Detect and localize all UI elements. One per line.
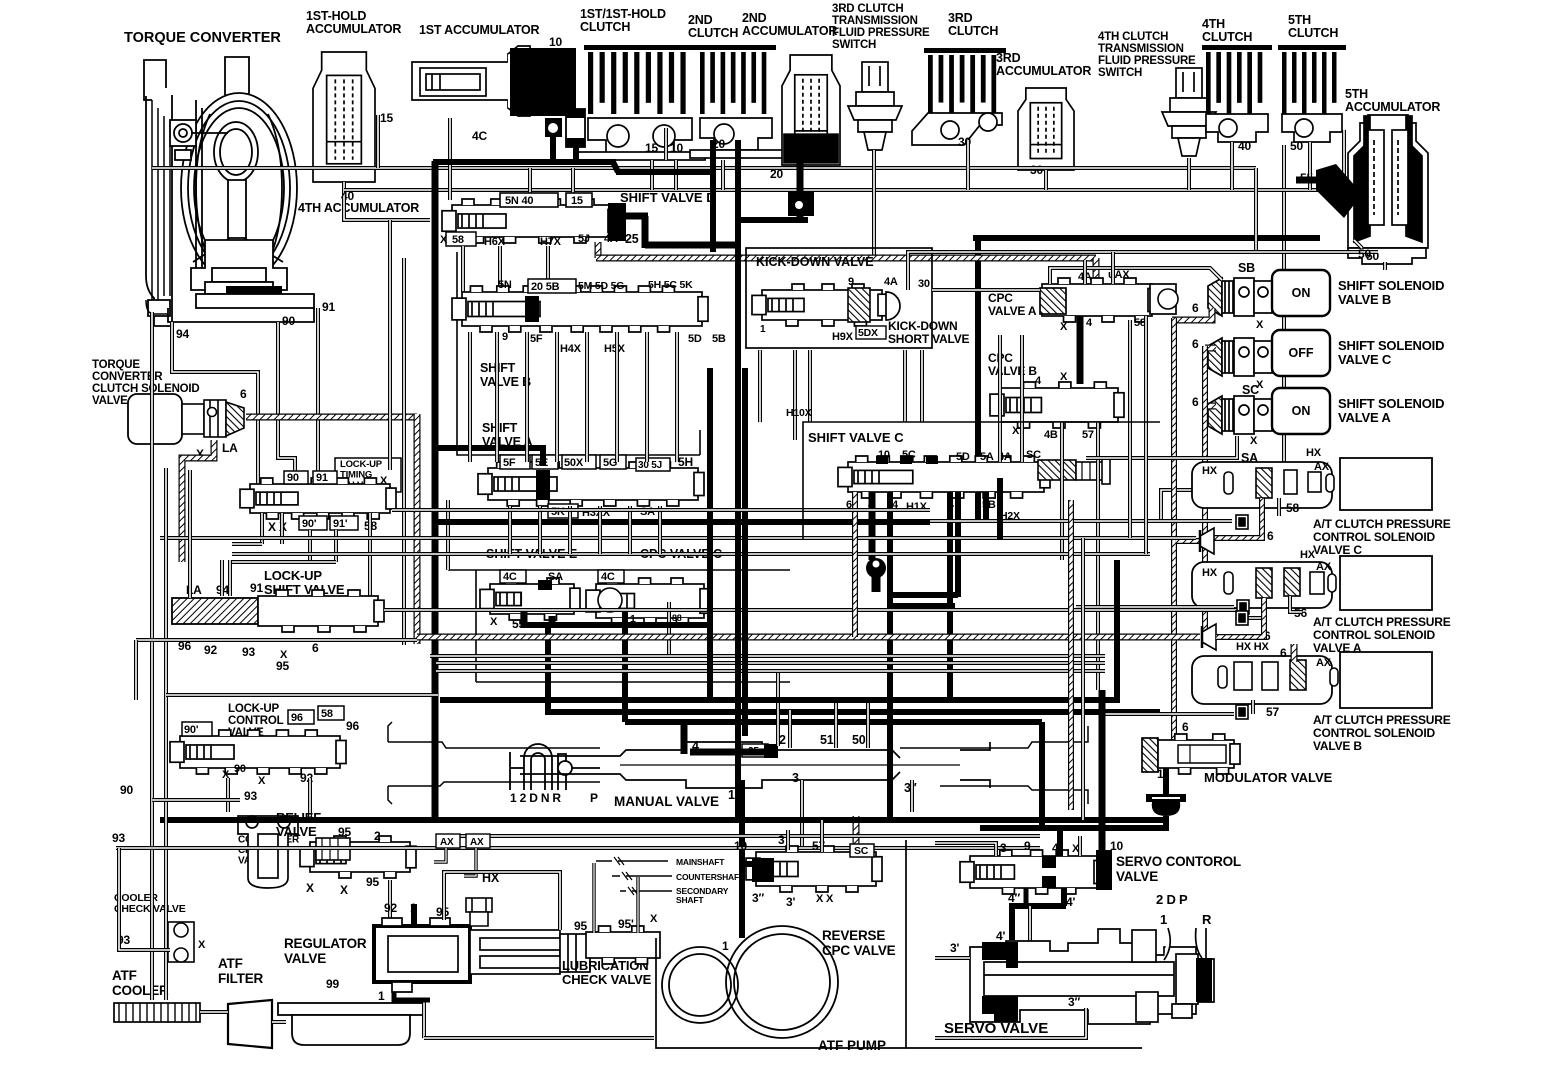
wire 56 from valve A bbox=[1290, 596, 1302, 612]
svg-text:SHORT VALVE: SHORT VALVE bbox=[888, 332, 970, 346]
svg-text:CONTROL SOLENOID: CONTROL SOLENOID bbox=[1313, 530, 1435, 544]
svg-text:SHIFT VALVE C: SHIFT VALVE C bbox=[808, 430, 904, 445]
svg-text:90: 90 bbox=[120, 783, 133, 797]
wires from CPC B down to bus bbox=[997, 478, 1003, 540]
svg-text:57: 57 bbox=[1266, 705, 1279, 719]
svg-text:CPC VALVE: CPC VALVE bbox=[822, 943, 896, 958]
svg-text:SHIFT SOLENOID: SHIFT SOLENOID bbox=[1338, 396, 1444, 411]
modulator valve bbox=[1142, 738, 1158, 772]
wire 90 to torque converter check valve bbox=[152, 798, 240, 802]
svg-text:SHAFT: SHAFT bbox=[676, 895, 704, 905]
svg-text:1: 1 bbox=[1157, 767, 1164, 781]
svg-text:91: 91 bbox=[322, 300, 335, 314]
shift valve C black top ports bbox=[876, 456, 888, 464]
regulator valve bbox=[374, 926, 470, 982]
svg-text:CLUTCH: CLUTCH bbox=[948, 24, 998, 38]
svg-text:1ST/1ST-HOLD: 1ST/1ST-HOLD bbox=[580, 7, 666, 21]
svg-text:VALVE B: VALVE B bbox=[480, 375, 531, 389]
svg-text:VALVE C: VALVE C bbox=[1338, 352, 1392, 367]
svg-text:50: 50 bbox=[1290, 139, 1303, 153]
svg-text:4C: 4C bbox=[601, 571, 615, 583]
thick wires 4p 4pp below servo control bbox=[1024, 888, 1029, 906]
thick wire 4 port of manual valve bbox=[681, 719, 688, 754]
svg-text:91: 91 bbox=[316, 472, 328, 484]
lock-up timing valve bbox=[240, 478, 396, 519]
thick wire 4 at servo control bbox=[1057, 828, 1063, 856]
svg-text:SHIFT: SHIFT bbox=[482, 421, 518, 435]
svg-text:X: X bbox=[198, 939, 206, 951]
pipe verticals kick-down down bbox=[998, 335, 1002, 462]
lubrication check valve bbox=[586, 926, 660, 964]
svg-text:X: X bbox=[650, 913, 658, 925]
hatched wire 6 vertical feed 2 bbox=[1202, 346, 1208, 637]
pipe y510 bus bbox=[392, 508, 930, 512]
servo valve black pistons bbox=[982, 942, 1018, 968]
svg-text:2ND: 2ND bbox=[688, 13, 713, 27]
wire 50 below 5th accumulator bbox=[1383, 262, 1387, 270]
svg-text:VALVE B: VALVE B bbox=[1338, 292, 1391, 307]
pipe from CPC valve C right port to bus bbox=[667, 602, 671, 656]
svg-text:10: 10 bbox=[549, 35, 562, 49]
servo valve box border bbox=[906, 840, 1142, 1048]
wires right column verticals bbox=[1128, 320, 1132, 538]
svg-text:93: 93 bbox=[244, 789, 257, 803]
svg-text:X: X bbox=[306, 881, 314, 895]
svg-text:MODULATOR VALVE: MODULATOR VALVE bbox=[1204, 770, 1333, 785]
svg-text:X: X bbox=[1012, 425, 1020, 437]
thick wire from CPC valve C down bbox=[622, 612, 628, 722]
svg-text:5N 40: 5N 40 bbox=[505, 195, 533, 207]
svg-text:5J: 5J bbox=[578, 233, 590, 245]
svg-text:1ST ACCUMULATOR: 1ST ACCUMULATOR bbox=[419, 23, 540, 37]
svg-text:50: 50 bbox=[852, 733, 866, 747]
svg-text:FLUID PRESSURE: FLUID PRESSURE bbox=[832, 27, 930, 39]
svg-text:9: 9 bbox=[848, 276, 854, 288]
svg-text:95: 95 bbox=[366, 875, 379, 889]
svg-text:20 5B: 20 5B bbox=[531, 281, 560, 293]
thick wire 5E down bbox=[433, 448, 543, 466]
regulator valve piston assembly bbox=[470, 930, 590, 974]
shift valve B box bbox=[457, 252, 700, 455]
wire 94 into lock-up shift valve bbox=[220, 560, 224, 596]
svg-text:90: 90 bbox=[287, 472, 299, 484]
wire 2 drop bbox=[788, 710, 792, 748]
servo valve body bbox=[970, 928, 1214, 1024]
pipe bus y836 bbox=[436, 834, 1040, 838]
left border pipe bbox=[150, 312, 154, 1000]
wire 90 from torque converter bbox=[278, 322, 295, 471]
check ball below shift valve C bbox=[866, 558, 886, 578]
pipe y695 left segment bbox=[166, 693, 438, 697]
svg-text:9: 9 bbox=[1024, 839, 1031, 853]
pipe y714 to port bbox=[1105, 712, 1234, 716]
svg-text:X: X bbox=[826, 893, 834, 905]
svg-text:58: 58 bbox=[321, 708, 333, 720]
svg-text:94: 94 bbox=[176, 327, 189, 341]
svg-text:A/T CLUTCH PRESSURE: A/T CLUTCH PRESSURE bbox=[1313, 517, 1451, 531]
hatched wire 6 from valve A to funnel bbox=[1216, 598, 1264, 637]
wire 40 from 4th accumulator to thick vertical bbox=[344, 196, 430, 220]
thick bus y712 bbox=[545, 709, 1160, 715]
svg-text:VALVE: VALVE bbox=[1116, 869, 1158, 884]
svg-text:KICK-DOWN VALVE: KICK-DOWN VALVE bbox=[756, 255, 874, 269]
AX AX port labels above regulator bbox=[436, 834, 460, 848]
svg-text:AX: AX bbox=[440, 837, 454, 848]
shift valve A bbox=[478, 462, 704, 506]
svg-text:5M 5D 5G: 5M 5D 5G bbox=[578, 280, 624, 292]
svg-text:3″: 3″ bbox=[1068, 995, 1080, 1009]
svg-text:H6X: H6X bbox=[484, 236, 506, 248]
svg-text:SB: SB bbox=[1238, 261, 1255, 275]
svg-text:VALVE: VALVE bbox=[284, 951, 326, 966]
wire 95 loop above regulator bbox=[444, 872, 560, 930]
thick wires at regulator valve bbox=[411, 904, 417, 926]
svg-text:3RD: 3RD bbox=[996, 51, 1021, 65]
hatched wire 6 to shift solenoid C bbox=[1205, 345, 1216, 352]
svg-text:AX: AX bbox=[1316, 561, 1332, 573]
pipe y607 to port bbox=[1076, 605, 1234, 609]
svg-text:6: 6 bbox=[312, 641, 319, 655]
svg-text:5TH: 5TH bbox=[1345, 87, 1368, 101]
svg-text:2: 2 bbox=[779, 733, 786, 747]
thick wire 10 down to servo control valve bbox=[1099, 690, 1106, 856]
svg-text:SHIFT SOLENOID: SHIFT SOLENOID bbox=[1338, 338, 1444, 353]
svg-text:95: 95 bbox=[276, 659, 289, 673]
wire SA down from solenoid A bbox=[1086, 436, 1237, 458]
wire 3prime to servo bbox=[935, 956, 970, 960]
wire bottom border bbox=[656, 938, 906, 1048]
shift solenoid valve C bbox=[1208, 338, 1272, 376]
svg-text:4C: 4C bbox=[472, 129, 487, 143]
mainshaft legend bbox=[596, 857, 672, 895]
wire 20 thick drop from 2nd accumulator bbox=[797, 162, 804, 194]
svg-text:5H: 5H bbox=[678, 455, 693, 469]
svg-text:5A: 5A bbox=[980, 451, 994, 463]
svg-text:96: 96 bbox=[291, 712, 303, 724]
svg-text:88: 88 bbox=[672, 613, 682, 623]
thick wire 10 into reverse CPC bbox=[742, 861, 756, 867]
svg-text:10: 10 bbox=[734, 839, 747, 853]
wire SB from solenoid B to left bbox=[1050, 268, 1222, 284]
manual valve port brackets bottom bbox=[388, 786, 392, 804]
CPC valve C bbox=[586, 578, 710, 624]
svg-text:50X: 50X bbox=[564, 457, 584, 469]
svg-text:X: X bbox=[1060, 321, 1068, 333]
thick wire down to bus y712 bbox=[545, 622, 551, 712]
funnel symbol on 6 line valve C bbox=[1200, 528, 1214, 554]
shift valve A black port 5E bbox=[536, 470, 550, 500]
svg-text:VALVE C: VALVE C bbox=[1313, 543, 1362, 557]
svg-text:1: 1 bbox=[722, 939, 729, 953]
svg-text:LOCK-UP: LOCK-UP bbox=[340, 459, 383, 470]
svg-text:H10X: H10X bbox=[786, 407, 812, 419]
thick wire 5B elbow down bbox=[983, 492, 989, 520]
svg-text:HX: HX bbox=[1306, 447, 1322, 459]
servo control valve bbox=[960, 850, 1104, 894]
svg-text:X X: X X bbox=[268, 520, 287, 534]
kick-down valve box bbox=[746, 248, 932, 348]
wire from 3rd clutch 30 bbox=[966, 140, 970, 190]
svg-text:4': 4' bbox=[996, 929, 1005, 943]
svg-text:R: R bbox=[1202, 912, 1212, 927]
thick wire 4 down right bbox=[947, 492, 953, 700]
svg-text:4': 4' bbox=[1066, 895, 1075, 909]
svg-text:X: X bbox=[1256, 319, 1264, 331]
lock-up control valve bbox=[170, 730, 346, 774]
port symbol y618 bbox=[1236, 611, 1248, 625]
svg-text:2: 2 bbox=[374, 829, 381, 843]
svg-text:CLUTCH: CLUTCH bbox=[688, 26, 738, 40]
svg-text:ACCUMULATOR: ACCUMULATOR bbox=[742, 24, 837, 38]
svg-text:VALVE A: VALVE A bbox=[988, 304, 1037, 318]
wire top bus 1 bbox=[152, 166, 1256, 170]
svg-text:3: 3 bbox=[792, 771, 799, 785]
svg-text:ACCUMULATOR: ACCUMULATOR bbox=[306, 22, 401, 36]
pipe 15 from clutch down bbox=[664, 128, 668, 160]
svg-text:LA: LA bbox=[222, 441, 238, 455]
reverse CPC valve bbox=[746, 846, 882, 892]
svg-text:58: 58 bbox=[452, 234, 464, 246]
svg-text:SHIFT VALVE D: SHIFT VALVE D bbox=[620, 190, 716, 205]
svg-text:SHIFT SOLENOID: SHIFT SOLENOID bbox=[1338, 278, 1444, 293]
relief valve bbox=[300, 836, 416, 878]
port symbol y712 bbox=[1236, 705, 1248, 719]
svg-text:CONTROL SOLENOID: CONTROL SOLENOID bbox=[1313, 628, 1435, 642]
pipe bus y538 bbox=[160, 536, 1196, 540]
wire from 3rd accumulator 30 bbox=[1044, 170, 1048, 190]
svg-text:90': 90' bbox=[302, 518, 317, 530]
wire top right to solenoid feed bbox=[1254, 168, 1258, 252]
svg-text:4TH CLUTCH: 4TH CLUTCH bbox=[1098, 31, 1168, 43]
svg-text:4A: 4A bbox=[884, 276, 898, 288]
ATF pump bbox=[662, 947, 738, 1023]
svg-text:90': 90' bbox=[184, 724, 199, 736]
thick bus y820 bbox=[160, 817, 1166, 823]
svg-text:VALVE B: VALVE B bbox=[988, 364, 1037, 378]
svg-text:10: 10 bbox=[670, 141, 683, 155]
wire 1 from modulator to bowl bbox=[1163, 768, 1169, 794]
pipe left verticals bbox=[188, 470, 192, 598]
CPC valve A bbox=[1042, 278, 1158, 322]
pipes under lock-up timing valve bbox=[260, 513, 264, 544]
svg-text:FLUID PRESSURE: FLUID PRESSURE bbox=[1098, 55, 1196, 67]
pipe from regulator 1 down to border bbox=[422, 1002, 426, 1038]
hatched wire 6 from valve C to funnel bbox=[1214, 498, 1262, 538]
svg-text:X: X bbox=[258, 775, 266, 787]
svg-text:95: 95 bbox=[338, 825, 351, 839]
svg-text:30 5J: 30 5J bbox=[638, 460, 662, 471]
thick bus y700 bbox=[440, 697, 1120, 703]
svg-text:H4X: H4X bbox=[560, 343, 582, 355]
svg-text:H7X: H7X bbox=[540, 236, 562, 248]
svg-text:AX: AX bbox=[1314, 461, 1330, 473]
svg-text:MAINSHAFT: MAINSHAFT bbox=[676, 857, 725, 867]
svg-text:99: 99 bbox=[326, 977, 339, 991]
hatched bus y637 bbox=[417, 634, 1200, 641]
svg-text:1 2 D N R: 1 2 D N R bbox=[510, 791, 561, 805]
hatched wire 6 to shift solenoid B bbox=[1172, 308, 1212, 320]
shift valve B bbox=[452, 286, 708, 332]
wire 93 to torque converter check valve bbox=[116, 846, 240, 850]
pipes under lock-up control valve bbox=[226, 778, 230, 812]
thick wire 4 junction under shift valve E bbox=[549, 616, 556, 628]
port symbol on 522 line bbox=[1236, 515, 1248, 529]
thick bus y522 bbox=[436, 519, 930, 525]
svg-text:6: 6 bbox=[1192, 395, 1199, 409]
svg-text:3RD: 3RD bbox=[948, 11, 973, 25]
hatched wire 4A from shift valve D bbox=[595, 242, 602, 258]
svg-text:KICK-DOWN: KICK-DOWN bbox=[888, 319, 958, 333]
svg-text:MANUAL VALVE: MANUAL VALVE bbox=[614, 794, 719, 809]
svg-text:25: 25 bbox=[625, 232, 639, 246]
svg-text:CHECK VALVE: CHECK VALVE bbox=[114, 903, 186, 915]
svg-text:FILTER: FILTER bbox=[218, 971, 263, 986]
svg-text:TRANSMISSION: TRANSMISSION bbox=[1098, 43, 1184, 55]
thick wire from 20 blob left to vertical 735 bbox=[738, 217, 808, 223]
svg-text:2 D P: 2 D P bbox=[1156, 892, 1188, 907]
wire 58 from valve C bbox=[1277, 498, 1281, 516]
svg-text:ON: ON bbox=[1292, 404, 1311, 418]
svg-text:10: 10 bbox=[1110, 839, 1123, 853]
shift valve D right black port bbox=[608, 203, 626, 241]
svg-text:4B: 4B bbox=[1044, 429, 1058, 441]
svg-text:X: X bbox=[440, 234, 448, 246]
svg-text:3: 3 bbox=[778, 833, 785, 847]
svg-text:ACCUMULATOR: ACCUMULATOR bbox=[1345, 100, 1440, 114]
svg-text:SC: SC bbox=[1242, 383, 1259, 397]
svg-text:4TH: 4TH bbox=[1202, 17, 1225, 31]
svg-text:4C: 4C bbox=[503, 571, 517, 583]
svg-text:OFF: OFF bbox=[1289, 346, 1314, 360]
svg-text:X: X bbox=[1250, 435, 1258, 447]
wires from top bus to shift valve D boxes bbox=[528, 168, 532, 193]
wire X at servo control bbox=[1078, 836, 1082, 856]
manual valve lever bbox=[510, 744, 600, 790]
wire 57 from CPC valve B down bbox=[1096, 422, 1100, 690]
svg-text:15: 15 bbox=[645, 141, 658, 155]
svg-text:AX: AX bbox=[1316, 657, 1332, 669]
svg-text:SC: SC bbox=[854, 845, 869, 857]
pipe 4pp thin down bbox=[1028, 906, 1032, 962]
wire 91 from torque converter bbox=[316, 308, 320, 471]
shift valve C thick stubs down bbox=[869, 492, 876, 560]
wire 2 port drop bbox=[776, 671, 780, 746]
svg-text:VALVE A: VALVE A bbox=[1338, 410, 1391, 425]
svg-text:TRANSMISSION: TRANSMISSION bbox=[832, 15, 918, 27]
svg-text:REGULATOR: REGULATOR bbox=[284, 936, 367, 951]
svg-text:15: 15 bbox=[380, 111, 393, 125]
thick wire 25-2 on manual valve bbox=[690, 749, 770, 756]
svg-text:5TH: 5TH bbox=[1288, 13, 1311, 27]
svg-text:6: 6 bbox=[1182, 720, 1189, 734]
svg-text:30: 30 bbox=[918, 278, 930, 290]
funnel symbol on 6 line valve A bbox=[1202, 624, 1216, 650]
svg-text:HX HX: HX HX bbox=[1236, 641, 1269, 653]
wire cooler to filter to pan bbox=[200, 1010, 228, 1014]
svg-text:SWITCH: SWITCH bbox=[832, 39, 876, 51]
svg-text:CONTROL SOLENOID: CONTROL SOLENOID bbox=[1313, 726, 1435, 740]
svg-text:COUNTERSHAFT: COUNTERSHAFT bbox=[676, 872, 745, 882]
regulator valve bolt bbox=[466, 898, 492, 926]
pipe buses y656-671 bbox=[430, 654, 1105, 658]
svg-text:A/T CLUTCH PRESSURE: A/T CLUTCH PRESSURE bbox=[1313, 713, 1451, 727]
svg-text:1ST-HOLD: 1ST-HOLD bbox=[306, 9, 366, 23]
lock-up shift valve bbox=[172, 598, 258, 624]
svg-text:REVERSE: REVERSE bbox=[822, 928, 885, 943]
svg-text:SERVO CONTOROL: SERVO CONTOROL bbox=[1116, 854, 1241, 869]
svg-text:5F: 5F bbox=[503, 457, 516, 469]
svg-text:9: 9 bbox=[502, 331, 508, 343]
svg-text:ATF PUMP: ATF PUMP bbox=[818, 1038, 886, 1053]
wire 10 thick from 1st accumulator region bbox=[710, 140, 716, 252]
svg-text:90: 90 bbox=[234, 763, 246, 775]
svg-text:SA: SA bbox=[548, 571, 563, 583]
wire from 4th clutch 40 bbox=[1230, 142, 1234, 190]
bowl symbol under modulator valve bbox=[1146, 794, 1186, 816]
svg-text:5N: 5N bbox=[498, 279, 512, 291]
pipes shift valve D to B bbox=[461, 246, 465, 292]
hatched wire LA down bbox=[182, 440, 214, 562]
svg-text:1: 1 bbox=[378, 989, 385, 1003]
svg-text:5H 5C 5K: 5H 5C 5K bbox=[648, 279, 693, 291]
svg-text:COOLER: COOLER bbox=[112, 983, 169, 998]
svg-text:X: X bbox=[490, 616, 498, 628]
svg-text:1: 1 bbox=[728, 788, 735, 802]
svg-text:HX: HX bbox=[1300, 549, 1316, 561]
svg-text:5D: 5D bbox=[688, 333, 702, 345]
thick wire 25 from shift valve D bbox=[625, 213, 648, 220]
thick wire CPC A to CPC B bbox=[1077, 316, 1084, 384]
svg-text:91': 91' bbox=[333, 518, 348, 530]
wire 4C drop from 1st accumulator bbox=[448, 118, 452, 200]
wire 94 from torque converter bbox=[172, 322, 258, 484]
svg-text:1: 1 bbox=[760, 324, 766, 335]
svg-text:93: 93 bbox=[112, 831, 125, 845]
svg-text:92: 92 bbox=[384, 901, 397, 915]
wire thick from black block of 1st accumulator bbox=[433, 159, 616, 165]
svg-text:TORQUE: TORQUE bbox=[92, 359, 140, 371]
svg-text:CLUTCH: CLUTCH bbox=[580, 20, 630, 34]
wire 57 from valve B bbox=[1251, 700, 1255, 714]
wire 57 feed to reverse CPC bbox=[820, 820, 824, 852]
wire 3 feed bbox=[786, 830, 790, 850]
svg-text:CLUTCH: CLUTCH bbox=[1288, 26, 1338, 40]
svg-text:1: 1 bbox=[1160, 912, 1167, 927]
svg-text:ATF: ATF bbox=[112, 968, 137, 983]
svg-text:5B: 5B bbox=[712, 333, 726, 345]
svg-text:HX: HX bbox=[1202, 465, 1218, 477]
hatched verticals right bbox=[1068, 500, 1074, 810]
svg-text:AX: AX bbox=[470, 837, 484, 848]
svg-text:VALVE: VALVE bbox=[92, 395, 128, 407]
svg-text:X: X bbox=[340, 883, 348, 897]
wire 55 to 5th accumulator bbox=[1296, 177, 1322, 184]
pipe bus y610 right part bbox=[930, 608, 1240, 612]
wire from 4th pressure switch bbox=[1187, 158, 1191, 190]
svg-text:95': 95' bbox=[618, 917, 634, 931]
wire 40 under 1st-hold accumulator bbox=[342, 182, 346, 196]
thick verticals middle bbox=[707, 368, 713, 700]
svg-text:92: 92 bbox=[204, 643, 217, 657]
pipe bus y554 bbox=[232, 552, 1150, 556]
svg-text:90: 90 bbox=[282, 314, 295, 328]
svg-text:51: 51 bbox=[820, 733, 834, 747]
svg-text:X: X bbox=[816, 893, 824, 905]
svg-text:H5X: H5X bbox=[604, 343, 626, 355]
svg-text:TORQUE CONVERTER: TORQUE CONVERTER bbox=[124, 30, 281, 46]
wire from 1st/1st-hold clutch 15 10 bbox=[650, 160, 654, 190]
svg-text:6: 6 bbox=[1280, 646, 1287, 660]
